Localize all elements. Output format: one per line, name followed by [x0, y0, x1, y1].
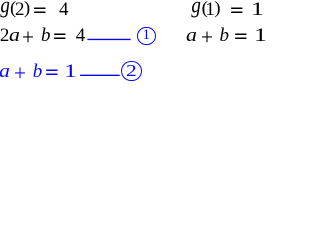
circled 2 — [121, 61, 142, 82]
equation g(1)=1 : tokens — [191, 0, 201, 19]
equation a+b=1 (blue) : tokens — [0, 62, 9, 81]
circled 1 — [137, 27, 156, 46]
equation 2a+b=4 : tokens — [0, 26, 9, 45]
rule after 2a+b=4 — [0, 0, 265, 87]
equation a+b=1 (right) : tokens — [186, 26, 196, 45]
equation g(2)=4 : tokens — [0, 0, 10, 19]
